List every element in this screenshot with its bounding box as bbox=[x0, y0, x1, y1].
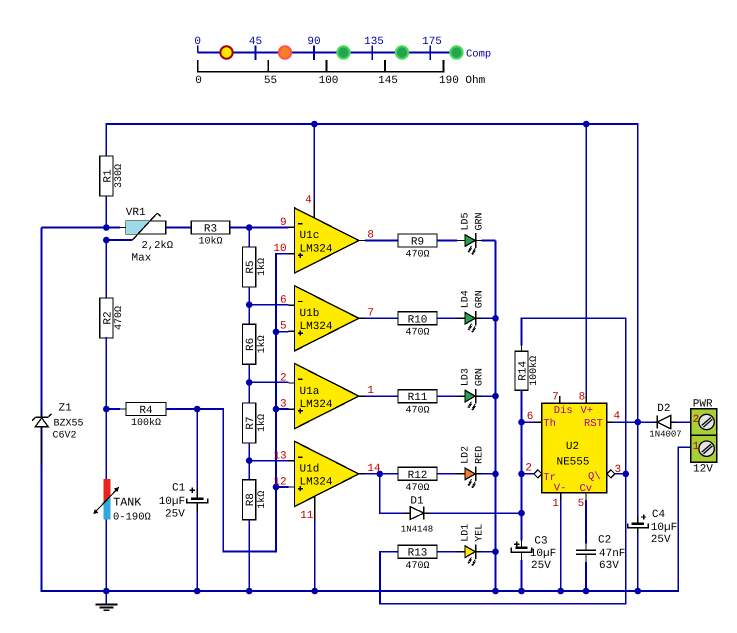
resistor R7 1k bbox=[243, 403, 256, 443]
wire LD2 to LED bus bbox=[482, 473, 496, 475]
junction + bus U1d bbox=[273, 484, 280, 491]
capacitor C2 47nF bbox=[585, 544, 587, 550]
junction top rail pin8 bbox=[583, 121, 590, 128]
svg-text:47nF: 47nF bbox=[599, 548, 625, 560]
capacitor C3 10uF bbox=[521, 540, 523, 546]
scale tick 135 bbox=[371, 45, 373, 59]
svg-text:D2: D2 bbox=[657, 403, 670, 415]
diode D2 1N4007 bbox=[654, 421, 658, 423]
svg-text:LD2: LD2 bbox=[460, 446, 471, 464]
svg-text:R3: R3 bbox=[204, 224, 217, 236]
resistor R13 470R bbox=[398, 545, 437, 558]
svg-text:R14: R14 bbox=[518, 361, 530, 381]
junction rail C1 bbox=[194, 588, 201, 595]
scale marker orange bbox=[279, 46, 291, 58]
label C3 plus bbox=[514, 543, 519, 545]
wire R14 top to NE555 output net bbox=[522, 318, 626, 474]
wire LD1 to LED bus bbox=[482, 551, 496, 553]
svg-text:R5: R5 bbox=[245, 260, 257, 273]
svg-text:V-: V- bbox=[554, 482, 567, 494]
svg-text:U1a: U1a bbox=[300, 386, 320, 398]
junction rail C3 bbox=[518, 588, 525, 595]
wire C2 to ground rail bbox=[585, 562, 587, 591]
svg-text:LM324: LM324 bbox=[300, 477, 333, 489]
zener diode Z1 BZX55 C6V2 bbox=[41, 410, 43, 418]
svg-text:R2: R2 bbox=[102, 311, 114, 324]
wire V+ top rail bbox=[106, 124, 638, 422]
wire C4 to ground rail bbox=[637, 534, 639, 591]
junction R5/R6 node bbox=[246, 301, 253, 308]
svg-text:Comp: Comp bbox=[466, 49, 491, 61]
resistor R14 100k bbox=[515, 351, 528, 390]
wire supply node down to C4 bbox=[637, 422, 639, 516]
wire op-amp out to R11 bbox=[365, 395, 398, 397]
svg-text:R13: R13 bbox=[408, 548, 428, 560]
capacitor C1 10uF bbox=[191, 497, 203, 500]
junction rail R8 bbox=[246, 588, 253, 595]
wire LD3 to LED bus bbox=[482, 395, 496, 397]
junction LED bus LD4 bbox=[492, 315, 499, 322]
svg-text:330Ω: 330Ω bbox=[114, 164, 125, 188]
bracket tick 55 bbox=[267, 60, 269, 72]
wire NE555 output to R13 bbox=[380, 474, 626, 604]
wire V+ pin8 to top rail bbox=[585, 124, 587, 396]
pin 6 Th stub bbox=[534, 421, 542, 423]
svg-text:470Ω: 470Ω bbox=[405, 328, 429, 339]
wire R13 to LD1 bbox=[437, 551, 457, 553]
scale tick 0 bbox=[197, 45, 199, 52]
junction R4 left node bbox=[103, 406, 110, 413]
svg-text:Z1: Z1 bbox=[59, 403, 73, 415]
svg-text:10µF: 10µF bbox=[530, 548, 556, 560]
junction LED bus ground bbox=[492, 588, 499, 595]
svg-text:25V: 25V bbox=[165, 509, 185, 521]
svg-text:R7: R7 bbox=[245, 416, 257, 429]
junction top rail pin4 bbox=[311, 121, 318, 128]
op-amp U1d bbox=[295, 441, 359, 506]
resistor R12 470R bbox=[398, 467, 437, 480]
connector PWR 12V bbox=[691, 409, 717, 463]
wire U1a plus input bbox=[276, 408, 288, 410]
svg-text:Max: Max bbox=[132, 253, 152, 265]
svg-text:1: 1 bbox=[693, 441, 700, 453]
junction supply node bbox=[635, 419, 642, 426]
svg-text:1kΩ: 1kΩ bbox=[256, 491, 268, 509]
svg-text:V+: V+ bbox=[581, 405, 594, 417]
scale marker green 1 bbox=[337, 46, 349, 58]
op-amp U1b bbox=[295, 286, 359, 351]
svg-text:2: 2 bbox=[280, 373, 287, 385]
svg-text:6: 6 bbox=[280, 295, 287, 307]
svg-text:GRN: GRN bbox=[474, 368, 485, 386]
wire U1d out down to D1 bbox=[380, 474, 405, 513]
svg-text:12: 12 bbox=[273, 476, 286, 488]
junction rail V- bbox=[557, 588, 564, 595]
svg-text:C2: C2 bbox=[598, 535, 611, 547]
svg-text:RED: RED bbox=[474, 446, 485, 464]
svg-text:470Ω: 470Ω bbox=[114, 306, 125, 330]
svg-text:10µF: 10µF bbox=[651, 522, 677, 534]
wire R3 to U1c inverting input bbox=[230, 227, 289, 229]
svg-text:10µF: 10µF bbox=[159, 496, 185, 508]
wire VR1 wiper return bbox=[106, 239, 132, 241]
wire LD4 to LED bus bbox=[482, 317, 496, 319]
svg-text:LD5: LD5 bbox=[460, 212, 471, 230]
junction ground rail / ground symbol bbox=[103, 588, 110, 595]
svg-text:7: 7 bbox=[552, 392, 559, 404]
junction wiper node bbox=[103, 237, 110, 244]
timer U2 NE555 bbox=[542, 403, 607, 492]
svg-text:3: 3 bbox=[615, 464, 622, 476]
svg-text:11: 11 bbox=[300, 510, 314, 522]
LED LD2 RED bbox=[457, 473, 465, 475]
svg-text:5: 5 bbox=[280, 321, 287, 333]
svg-text:2: 2 bbox=[693, 414, 700, 426]
junction rail pin11 bbox=[311, 588, 318, 595]
svg-text:55: 55 bbox=[264, 75, 277, 87]
svg-text:R4: R4 bbox=[139, 405, 153, 417]
svg-text:Dis: Dis bbox=[554, 405, 573, 417]
svg-text:R1: R1 bbox=[102, 169, 114, 183]
junction VR1 node bbox=[103, 224, 110, 231]
wire LED cathode bus to ground bbox=[495, 241, 497, 592]
wire U1d pin11 ground bbox=[314, 497, 316, 522]
wire D1 to timing node bbox=[430, 512, 522, 514]
wire R9 to LD5 bbox=[437, 240, 457, 242]
resistor R10 470R bbox=[398, 312, 437, 325]
resistor R6 1k bbox=[243, 324, 256, 364]
svg-text:10kΩ: 10kΩ bbox=[198, 236, 222, 248]
svg-text:10: 10 bbox=[273, 243, 286, 255]
svg-text:6: 6 bbox=[527, 411, 534, 423]
pin 2 Tr inverted input bbox=[534, 470, 542, 478]
scale marker green 3 bbox=[450, 46, 462, 58]
wire R11 to LD3 bbox=[437, 395, 457, 397]
svg-text:TANK: TANK bbox=[113, 496, 141, 510]
svg-text:LD1: LD1 bbox=[460, 524, 471, 542]
variable resistor TANK 0-190R bbox=[105, 409, 107, 479]
svg-text:100kΩ: 100kΩ bbox=[528, 356, 540, 386]
wire Tr to timing node bbox=[522, 473, 534, 475]
svg-text:LD3: LD3 bbox=[460, 368, 471, 386]
pin 7 Dis stub bbox=[559, 396, 561, 404]
wire VR1 to R3 bbox=[166, 227, 191, 229]
svg-text:25V: 25V bbox=[651, 534, 671, 546]
wire Th to timing node bbox=[522, 421, 535, 423]
svg-text:8: 8 bbox=[579, 392, 586, 404]
scale axis line bbox=[198, 52, 457, 54]
svg-text:3: 3 bbox=[280, 399, 287, 411]
svg-text:U1d: U1d bbox=[300, 464, 320, 476]
svg-text:C6V2: C6V2 bbox=[53, 431, 77, 442]
svg-text:VR1: VR1 bbox=[126, 207, 146, 219]
wire R14 bottom to Th node bbox=[521, 390, 523, 422]
svg-text:13: 13 bbox=[273, 450, 286, 462]
wire R2 to R4 node bbox=[105, 337, 107, 409]
svg-text:U2: U2 bbox=[566, 441, 579, 453]
resistor R11 470R bbox=[398, 390, 437, 403]
svg-text:GRN: GRN bbox=[474, 212, 485, 230]
wire ground rail bbox=[42, 228, 691, 592]
svg-text:2: 2 bbox=[525, 463, 532, 475]
svg-text:135: 135 bbox=[364, 36, 384, 48]
junction LED bus LD3 bbox=[492, 393, 499, 400]
wire R1 bottom to VR1 node bbox=[105, 195, 107, 228]
wire U1b minus input bbox=[249, 304, 288, 306]
svg-text:0: 0 bbox=[195, 75, 202, 87]
svg-text:C3: C3 bbox=[534, 536, 547, 548]
svg-text:145: 145 bbox=[378, 75, 398, 87]
wire Cv to C2 bbox=[585, 500, 587, 544]
svg-text:R9: R9 bbox=[411, 237, 424, 249]
wire U1c pin4 supply bbox=[313, 124, 315, 201]
wire D2 to PWR pin2 bbox=[676, 421, 691, 423]
svg-text:175: 175 bbox=[422, 36, 442, 48]
svg-text:C1: C1 bbox=[172, 483, 186, 495]
junction LED bus LD1 bbox=[492, 548, 499, 555]
svg-text:R11: R11 bbox=[408, 392, 428, 404]
svg-text:1N4148: 1N4148 bbox=[401, 525, 433, 535]
svg-text:470Ω: 470Ω bbox=[405, 483, 429, 494]
wire V- to ground rail bbox=[560, 500, 562, 591]
svg-text:R8: R8 bbox=[245, 493, 257, 506]
resistor R3 10k bbox=[191, 221, 230, 234]
svg-text:1kΩ: 1kΩ bbox=[256, 258, 268, 276]
svg-text:GRN: GRN bbox=[474, 290, 485, 308]
resistor R9 470R bbox=[398, 234, 437, 247]
bracket tick 145 bbox=[384, 60, 386, 72]
pin 8 V+ stub bbox=[585, 396, 587, 403]
svg-text:4: 4 bbox=[305, 195, 312, 207]
svg-text:9: 9 bbox=[280, 217, 287, 229]
wire U1a minus input bbox=[249, 381, 288, 383]
svg-text:Q\: Q\ bbox=[588, 471, 601, 483]
label C1 plus bbox=[190, 489, 195, 491]
svg-text:5: 5 bbox=[578, 498, 585, 510]
wire R2/R4 node bbox=[106, 408, 120, 410]
LED LD3 GRN bbox=[457, 395, 465, 397]
junction NE555 output node bbox=[623, 471, 630, 478]
wire Q to output node bbox=[615, 473, 626, 475]
wire R6/R7 node bbox=[248, 382, 250, 403]
wire timing node down bbox=[521, 422, 523, 540]
wire R3 node to R5 bbox=[248, 228, 250, 248]
wire R5/R6 node bbox=[248, 305, 250, 325]
svg-text:0-190Ω: 0-190Ω bbox=[113, 512, 151, 524]
op-amp U1a bbox=[295, 364, 359, 429]
svg-text:R10: R10 bbox=[408, 314, 428, 326]
wire R1 node down to R2 bbox=[105, 240, 107, 298]
scale tick 175 bbox=[429, 45, 431, 59]
wire op-amp out to R9 bbox=[365, 240, 398, 242]
svg-text:NE555: NE555 bbox=[556, 457, 589, 469]
capacitor C4 10uF bbox=[637, 516, 639, 522]
junction + bus U1b bbox=[273, 329, 280, 336]
wire U1d plus input bbox=[276, 486, 288, 488]
junction R7/R8 node bbox=[246, 457, 253, 464]
svg-text:Th: Th bbox=[543, 418, 556, 430]
svg-text:190 Ohm: 190 Ohm bbox=[439, 75, 486, 87]
junction D1 timing node bbox=[518, 510, 525, 517]
svg-text:2,2kΩ: 2,2kΩ bbox=[142, 240, 174, 252]
svg-text:BZX55: BZX55 bbox=[54, 419, 84, 430]
svg-text:LD4: LD4 bbox=[460, 290, 471, 308]
svg-text:RST: RST bbox=[584, 418, 603, 430]
ground symbol bbox=[105, 591, 107, 604]
svg-text:4: 4 bbox=[614, 411, 621, 423]
junction Tr node bbox=[518, 471, 525, 478]
junction R3/R5 node bbox=[246, 224, 253, 231]
svg-text:470Ω: 470Ω bbox=[405, 250, 429, 261]
wire R6 to U1a node bbox=[248, 364, 250, 382]
LED LD4 GRN bbox=[457, 317, 465, 319]
svg-text:PWR: PWR bbox=[693, 399, 713, 411]
wire left rail to VR1 bbox=[42, 227, 121, 229]
scale tick 45 bbox=[255, 45, 257, 59]
svg-text:470Ω: 470Ω bbox=[405, 561, 429, 572]
scale bottom bracket bbox=[198, 60, 444, 72]
wire R4 to op-amp + bus bbox=[166, 254, 288, 552]
svg-text:R12: R12 bbox=[408, 470, 428, 482]
wire op-amp out to R12 bbox=[365, 473, 398, 475]
junction LED bus LD2 bbox=[492, 471, 499, 478]
scale tick 90 bbox=[313, 45, 315, 59]
svg-text:D1: D1 bbox=[410, 496, 424, 508]
scale marker green 2 bbox=[396, 46, 408, 58]
svg-text:U1b: U1b bbox=[300, 308, 320, 320]
wire C3 to ground rail bbox=[521, 560, 523, 591]
wire R4 node down to C1 bbox=[196, 409, 198, 488]
wire R10 to LD4 bbox=[437, 317, 457, 319]
pin 3 Q inverted output bbox=[607, 470, 615, 478]
svg-text:1N4007: 1N4007 bbox=[649, 429, 681, 439]
wire U1b plus input bbox=[276, 331, 288, 333]
wire R12 to LD2 bbox=[437, 473, 457, 475]
LED LD1 YEL bbox=[457, 551, 465, 553]
svg-text:100: 100 bbox=[319, 75, 339, 87]
svg-text:1: 1 bbox=[552, 498, 559, 510]
resistor R4 100k bbox=[126, 403, 166, 416]
svg-text:LM324: LM324 bbox=[300, 399, 333, 411]
svg-text:25V: 25V bbox=[531, 560, 551, 572]
junction rail C4 bbox=[635, 588, 642, 595]
svg-text:100kΩ: 100kΩ bbox=[131, 417, 161, 429]
svg-text:12V: 12V bbox=[693, 464, 713, 476]
pin 4 RST stub bbox=[607, 421, 613, 423]
svg-text:R6: R6 bbox=[245, 338, 257, 351]
svg-text:C4: C4 bbox=[652, 509, 666, 521]
TANK wiper arrow bbox=[95, 489, 117, 512]
junction R6/R7 node bbox=[246, 379, 253, 386]
junction R4/C1 node bbox=[194, 406, 201, 413]
label C4 plus bbox=[641, 516, 646, 518]
junction + bus U1a bbox=[273, 406, 280, 413]
junction rail C2 bbox=[583, 588, 590, 595]
wire U1d minus input bbox=[249, 460, 288, 462]
svg-text:0: 0 bbox=[194, 36, 201, 48]
svg-text:LM324: LM324 bbox=[300, 321, 333, 333]
junction U1d output bbox=[377, 471, 384, 478]
svg-text:1kΩ: 1kΩ bbox=[256, 335, 268, 353]
LED LD5 GRN bbox=[457, 240, 465, 242]
trimmer VR1 2,2k bbox=[126, 221, 166, 234]
wire RST to supply node bbox=[613, 421, 654, 423]
resistor R1 330R bbox=[100, 156, 113, 196]
wire R7/R8 node bbox=[248, 461, 250, 480]
wire R8 to ground rail bbox=[248, 520, 250, 591]
svg-text:63V: 63V bbox=[599, 560, 619, 572]
svg-text:470Ω: 470Ω bbox=[405, 405, 429, 416]
svg-text:45: 45 bbox=[249, 36, 262, 48]
op-amp U1c bbox=[295, 208, 359, 273]
bracket tick 100 bbox=[326, 60, 328, 72]
svg-text:U1c: U1c bbox=[300, 230, 320, 242]
resistor R8 1k bbox=[243, 480, 256, 520]
wire C1 to ground rail bbox=[196, 513, 198, 591]
junction Th node bbox=[518, 419, 525, 426]
scale marker yellow bbox=[220, 46, 232, 58]
pin 5 Cv stub bbox=[585, 493, 587, 500]
svg-text:LM324: LM324 bbox=[300, 243, 333, 255]
diode D1 1N4148 bbox=[405, 512, 411, 514]
wire op-amp out to R10 bbox=[365, 317, 398, 319]
pin 1 V- stub bbox=[560, 493, 562, 500]
wire R5 to U1b node bbox=[248, 287, 250, 305]
svg-text:1kΩ: 1kΩ bbox=[256, 414, 268, 432]
svg-text:90: 90 bbox=[307, 36, 320, 48]
svg-text:YEL: YEL bbox=[474, 524, 485, 542]
resistor R5 1k bbox=[243, 247, 256, 287]
wire LD5 to LED bus bbox=[482, 240, 496, 242]
resistor R2 470R bbox=[100, 298, 113, 338]
wire R7 to U1d node bbox=[248, 443, 250, 461]
